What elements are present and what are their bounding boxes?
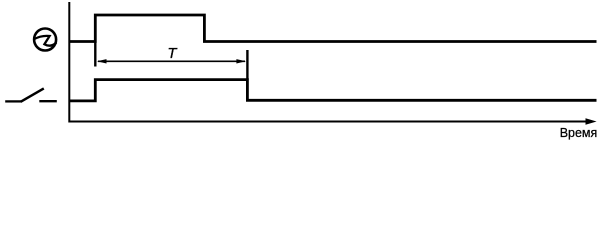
svg-text:Время: Время [560,126,598,140]
svg-text:T: T [167,45,178,62]
